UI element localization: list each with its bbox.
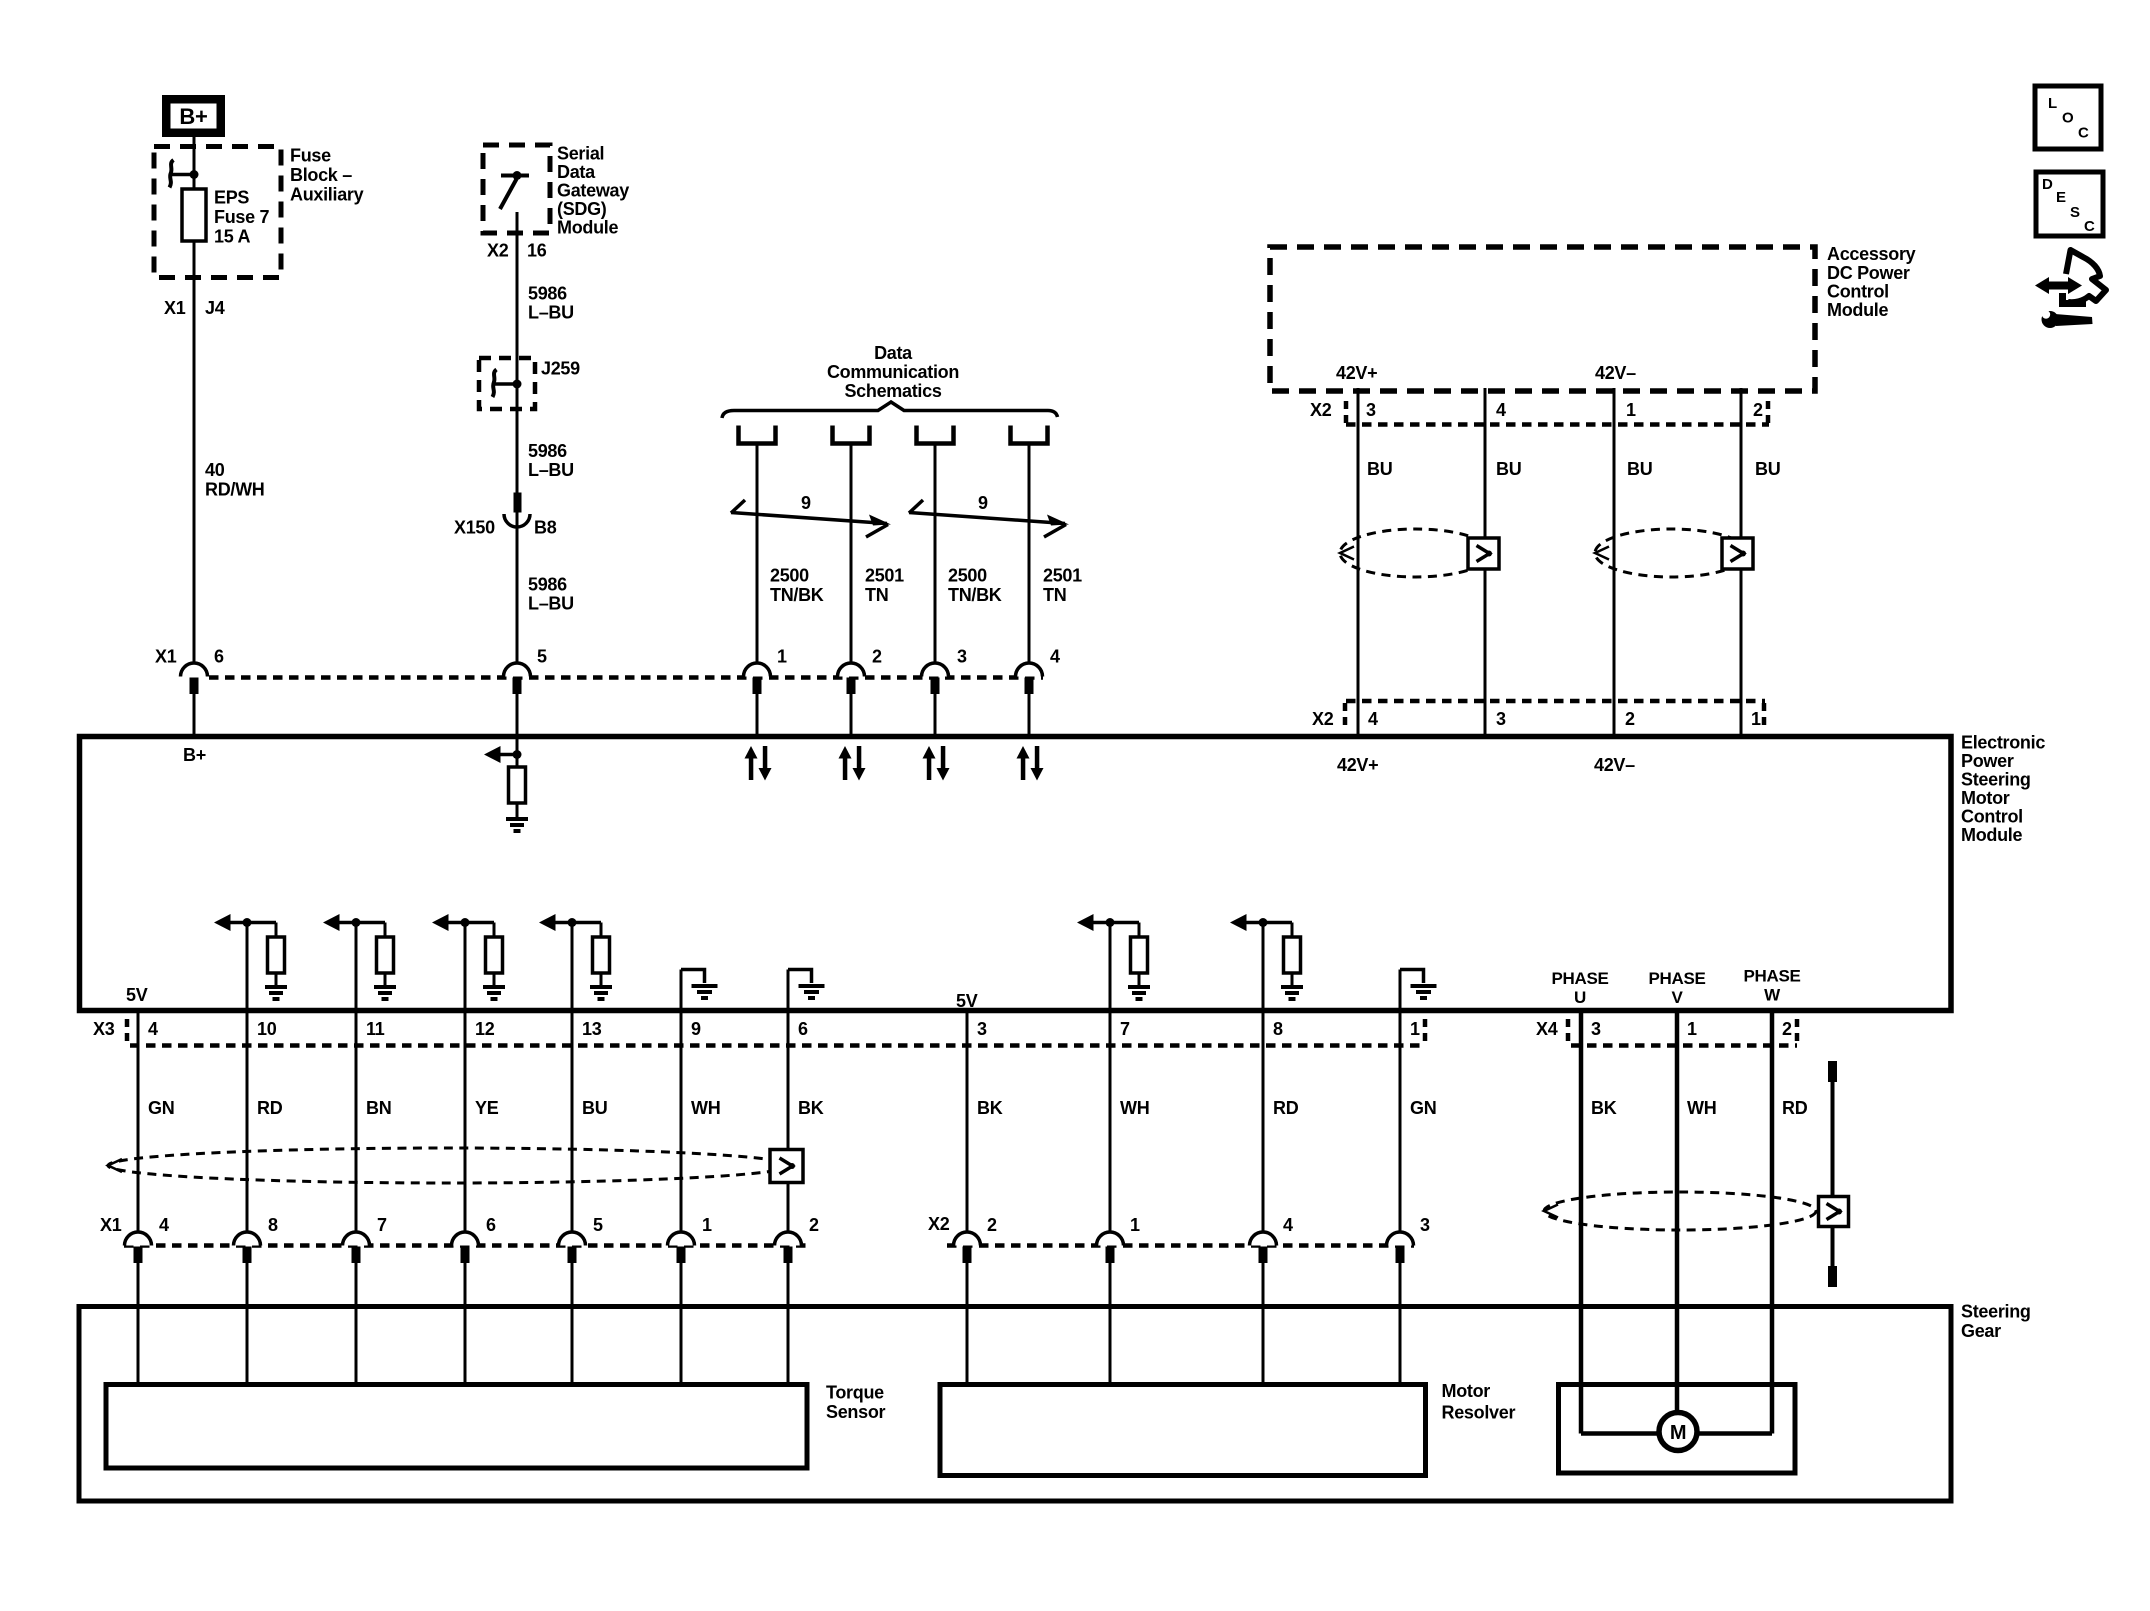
ground internal serial data [506, 817, 528, 821]
wire 2501 TN right [1028, 444, 1031, 664]
splice J259 hook [494, 382, 517, 386]
svg-text:X2: X2 [928, 1214, 950, 1234]
wire into motor resolver pin 4 [1262, 1263, 1265, 1385]
svg-text:Control: Control [1827, 282, 1889, 302]
svg-text:EPS: EPS [214, 188, 249, 208]
connector X1 pin 5 [504, 663, 531, 677]
icon DESC box [2036, 172, 2103, 236]
svg-text:X1: X1 [155, 647, 177, 667]
svg-text:42V–: 42V– [1595, 363, 1636, 383]
svg-text:DC Power: DC Power [1827, 263, 1910, 283]
bidirectional data arrows pin 4 [1021, 758, 1026, 780]
wire 42V+ BU b [1484, 388, 1487, 736]
twisted pair marker 9 left [731, 500, 745, 513]
svg-text:1: 1 [1410, 1019, 1420, 1039]
svg-text:1: 1 [777, 647, 787, 667]
svg-text:7: 7 [1120, 1019, 1130, 1039]
icon data exchange arrow [2048, 282, 2070, 290]
svg-text:BN: BN [366, 1098, 391, 1118]
shield ellipse 42V- pair [1595, 529, 1748, 577]
svg-text:9: 9 [691, 1019, 701, 1039]
bracket X4 right [1795, 1019, 1800, 1041]
svg-text:4: 4 [159, 1215, 169, 1235]
wire pin4 to module [1028, 693, 1031, 736]
svg-text:2: 2 [987, 1215, 997, 1235]
svg-text:42V+: 42V+ [1336, 363, 1377, 383]
svg-text:BK: BK [798, 1098, 824, 1118]
motor resolver box [940, 1385, 1426, 1476]
wire phase V [1675, 1013, 1680, 1413]
bidirectional data arrows pin 2 [843, 758, 848, 780]
svg-text:Schematics: Schematics [844, 381, 941, 401]
accessory DC power control module dashed box [1270, 247, 1815, 391]
svg-text:42V+: 42V+ [1337, 755, 1378, 775]
module ground pigtail pin 6 [787, 970, 790, 1233]
wire into torque sensor pin 8 [246, 1263, 249, 1385]
shield drain torque sensor harness [770, 1150, 803, 1183]
fuse block internal bus hook [171, 173, 194, 177]
wire into torque sensor pin 1 [680, 1263, 683, 1385]
svg-text:5: 5 [593, 1215, 603, 1235]
svg-text:X150: X150 [454, 518, 495, 538]
svg-text:S: S [2070, 204, 2080, 221]
svg-text:42V–: 42V– [1594, 755, 1635, 775]
svg-text:4: 4 [148, 1019, 158, 1039]
wire into motor resolver pin 3 [1399, 1263, 1402, 1385]
svg-text:YE: YE [475, 1098, 499, 1118]
phase shield conductor [1831, 1072, 1835, 1277]
svg-text:BK: BK [1591, 1098, 1617, 1118]
connector X1 pin 2 [838, 663, 865, 677]
module ground pigtail pin 9 [680, 970, 683, 1233]
svg-text:D: D [2042, 176, 2053, 193]
bracket X2 lower right [1762, 703, 1767, 725]
svg-text:2: 2 [1782, 1019, 1792, 1039]
svg-text:Serial: Serial [557, 144, 604, 164]
svg-text:Data: Data [557, 162, 596, 182]
svg-text:2: 2 [872, 647, 882, 667]
bracket X4 left [1566, 1019, 1571, 1041]
wire pin1 to module [756, 693, 759, 736]
svg-text:2500: 2500 [770, 566, 809, 586]
svg-text:PHASE: PHASE [1551, 969, 1608, 988]
svg-text:M: M [1670, 1422, 1686, 1444]
svg-text:Fuse: Fuse [290, 146, 331, 166]
module 5V pullup pin 13 [571, 923, 574, 1233]
wire pin6 to module [193, 693, 196, 736]
svg-text:Module: Module [557, 218, 618, 238]
svg-text:13: 13 [582, 1019, 602, 1039]
svg-text:X1: X1 [164, 298, 186, 318]
icon wrench [2042, 311, 2059, 328]
svg-text:5V: 5V [126, 985, 148, 1005]
connector steering X1 pin 2 [775, 1232, 802, 1246]
connector steering X1 pin 6 [452, 1232, 479, 1246]
bidirectional data arrows pin 1 [749, 758, 754, 780]
connector steering X2 pin 2 [954, 1232, 981, 1246]
svg-text:9: 9 [978, 493, 988, 513]
svg-text:Electronic: Electronic [1961, 733, 2045, 753]
bracket X3 right [1423, 1019, 1428, 1041]
svg-text:WH: WH [1687, 1098, 1716, 1118]
svg-text:PHASE: PHASE [1648, 969, 1705, 988]
wire into torque sensor pin 5 [571, 1263, 574, 1385]
svg-text:BK: BK [977, 1098, 1003, 1118]
svg-text:3: 3 [977, 1019, 987, 1039]
svg-text:1: 1 [1687, 1019, 1697, 1039]
svg-text:5986: 5986 [528, 284, 567, 304]
svg-text:X2: X2 [487, 241, 509, 261]
svg-text:B8: B8 [534, 518, 557, 538]
svg-text:3: 3 [1366, 400, 1376, 420]
svg-text:X1: X1 [100, 1215, 122, 1235]
connector steering X2 pin 3 [1387, 1232, 1414, 1246]
svg-text:5V: 5V [956, 991, 978, 1011]
svg-text:BU: BU [1627, 459, 1652, 479]
svg-text:1: 1 [1751, 709, 1761, 729]
svg-text:15 A: 15 A [214, 227, 250, 247]
svg-text:O: O [2062, 110, 2074, 127]
motor box [1559, 1385, 1796, 1474]
svg-text:RD: RD [257, 1098, 283, 1118]
svg-text:RD: RD [1273, 1098, 1299, 1118]
svg-text:GN: GN [1410, 1098, 1436, 1118]
svg-text:BU: BU [1496, 459, 1521, 479]
svg-text:L–BU: L–BU [528, 460, 574, 480]
shield ellipse torque sensor harness [108, 1148, 790, 1183]
wire into torque sensor pin 7 [355, 1263, 358, 1385]
pass-through connector X150 pin B8 [514, 493, 522, 513]
svg-text:2: 2 [809, 1215, 819, 1235]
svg-text:TN/BK: TN/BK [948, 585, 1002, 605]
wire 42V+ BU a [1357, 388, 1360, 736]
module ground pigtail pin 1 [1399, 970, 1402, 1233]
connector row X1 dashed line [209, 675, 1043, 680]
svg-text:Accessory: Accessory [1827, 244, 1916, 264]
svg-text:3: 3 [1496, 709, 1506, 729]
svg-text:Module: Module [1827, 300, 1888, 320]
svg-text:L–BU: L–BU [528, 594, 574, 614]
connector steering X2 pin 1 [1097, 1232, 1124, 1246]
wire into motor resolver pin 1 [1109, 1263, 1112, 1385]
svg-text:2501: 2501 [1043, 566, 1082, 586]
bidirectional data arrows pin 3 [927, 758, 932, 780]
svg-text:Motor: Motor [1961, 788, 2010, 808]
svg-text:2: 2 [1753, 400, 1763, 420]
wire into torque sensor pin 2 [787, 1263, 790, 1385]
connector X3 dashed line [130, 1043, 1422, 1048]
svg-text:RD: RD [1782, 1098, 1808, 1118]
serial data gateway module dashed box [483, 145, 550, 233]
wire 2500 TN/BK left [756, 444, 759, 664]
connector X4 dashed line [1571, 1043, 1797, 1048]
wire B+ feed 40 RD/WH [193, 137, 196, 663]
svg-text:RD/WH: RD/WH [205, 480, 265, 500]
svg-text:2501: 2501 [865, 566, 904, 586]
connector steering X1 pin 7 [343, 1232, 370, 1246]
wire pin3 to module [934, 693, 937, 736]
svg-text:Control: Control [1961, 807, 2023, 827]
svg-text:Resolver: Resolver [1442, 1403, 1516, 1423]
bus terminal 1 [739, 426, 776, 444]
svg-text:(SDG): (SDG) [557, 199, 607, 219]
svg-text:1: 1 [702, 1215, 712, 1235]
svg-text:9: 9 [801, 493, 811, 513]
svg-text:5986: 5986 [528, 441, 567, 461]
svg-text:Fuse 7: Fuse 7 [214, 207, 270, 227]
svg-text:4: 4 [1050, 647, 1060, 667]
connector steering X1 pin 5 [559, 1232, 586, 1246]
connector X2 upper dashed line [1346, 422, 1769, 427]
connector X1 pin 4 [1016, 663, 1043, 677]
connector row X1 lower dashed line [124, 1243, 806, 1248]
svg-text:Block –: Block – [290, 165, 352, 185]
svg-text:GN: GN [148, 1098, 174, 1118]
svg-text:BU: BU [582, 1098, 607, 1118]
connector steering X2 pin 4 [1250, 1232, 1277, 1246]
battery positive terminal B+ [162, 95, 225, 137]
svg-text:L: L [2048, 95, 2057, 112]
svg-text:V: V [1671, 988, 1683, 1007]
module 5V pullup pin 10 [246, 923, 249, 1233]
steering gear box [79, 1307, 1951, 1502]
svg-text:C: C [2078, 125, 2089, 142]
svg-text:BU: BU [1367, 459, 1392, 479]
svg-text:W: W [1764, 986, 1781, 1005]
svg-text:1: 1 [1130, 1215, 1140, 1235]
svg-text:Steering: Steering [1961, 770, 2031, 790]
wire 2501 TN left [850, 444, 853, 664]
bracket X3 left [125, 1019, 130, 1041]
module 5V reference on serial data line [513, 750, 522, 759]
svg-text:WH: WH [691, 1098, 720, 1118]
svg-text:L–BU: L–BU [528, 303, 574, 323]
svg-text:3: 3 [1591, 1019, 1601, 1039]
svg-text:Data: Data [874, 343, 913, 363]
icon LOC box [2035, 86, 2101, 149]
bus terminal 4 [1011, 426, 1048, 444]
module 5V pullup pin 12 [464, 923, 467, 1233]
fuse block - auxiliary dashed box [154, 147, 281, 278]
shield ellipse 42V+ pair [1340, 529, 1491, 577]
SDG internal switch contact [501, 174, 529, 178]
bracket X2 upper right [1766, 401, 1771, 423]
svg-text:4: 4 [1368, 709, 1378, 729]
electronic power steering motor control module box [80, 737, 1952, 1011]
connector steering X1 pin 4 [125, 1232, 152, 1246]
svg-text:B+: B+ [183, 745, 206, 765]
wire phase W [1770, 1013, 1775, 1434]
connector row X2 lower dashed line [947, 1243, 1414, 1248]
svg-text:3: 3 [1420, 1215, 1430, 1235]
bus terminal 3 [917, 426, 954, 444]
svg-text:WH: WH [1120, 1098, 1149, 1118]
svg-text:Sensor: Sensor [826, 1402, 886, 1422]
svg-text:6: 6 [798, 1019, 808, 1039]
svg-text:Steering: Steering [1961, 1302, 2031, 1322]
svg-text:5986: 5986 [528, 575, 567, 595]
svg-text:U: U [1574, 988, 1586, 1007]
svg-text:X2: X2 [1312, 709, 1334, 729]
wire motor phase U link [1581, 1431, 1659, 1436]
bracket X2 lower left [1343, 703, 1348, 725]
svg-text:4: 4 [1496, 400, 1506, 420]
wire into torque sensor pin 6 [464, 1263, 467, 1385]
wire phase U [1579, 1013, 1584, 1434]
icon power flow outline [2066, 250, 2106, 302]
svg-text:7: 7 [377, 1215, 387, 1235]
connector X1 pin 6 [181, 663, 208, 677]
svg-text:6: 6 [486, 1215, 496, 1235]
svg-text:8: 8 [1273, 1019, 1283, 1039]
connector X1 pin 3 [922, 663, 949, 677]
wire sensor BK pin3 [966, 1013, 969, 1232]
svg-text:X2: X2 [1310, 400, 1332, 420]
shield ellipse phase wires [1544, 1192, 1816, 1230]
wire pin5 to module [516, 693, 519, 739]
wire into motor resolver pin 2 [966, 1263, 969, 1385]
connector X1 pin 1 [744, 663, 771, 677]
motor M [1659, 1413, 1697, 1451]
svg-text:10: 10 [257, 1019, 277, 1039]
shield drain 42V- pair [1722, 538, 1753, 569]
svg-text:BU: BU [1755, 459, 1780, 479]
brace data communication [722, 402, 1058, 418]
svg-text:8: 8 [268, 1215, 278, 1235]
svg-text:J259: J259 [541, 359, 580, 379]
connector steering X1 pin 8 [234, 1232, 261, 1246]
svg-text:Torque: Torque [826, 1383, 884, 1403]
svg-text:B+: B+ [179, 104, 207, 129]
svg-text:16: 16 [527, 241, 547, 261]
svg-text:J4: J4 [205, 298, 225, 318]
splice J259 dashed box [479, 358, 535, 409]
svg-text:4: 4 [1283, 1215, 1293, 1235]
svg-text:3: 3 [957, 647, 967, 667]
wire 42V- BU a [1613, 388, 1616, 736]
svg-text:Motor: Motor [1442, 1381, 1491, 1401]
svg-text:Gear: Gear [1961, 1321, 2001, 1341]
wire pin2 to module [850, 693, 853, 736]
twisted pair marker 9 right [909, 500, 923, 513]
svg-text:E: E [2056, 189, 2066, 206]
shield drain phase wires [1819, 1197, 1849, 1227]
bus terminal 2 [833, 426, 870, 444]
connector steering X1 pin 1 [668, 1232, 695, 1246]
module 5V pullup pin 7 [1109, 923, 1112, 1233]
svg-text:1: 1 [1626, 400, 1636, 420]
module 5V pullup pin 8 [1262, 923, 1265, 1233]
svg-text:Module: Module [1961, 825, 2022, 845]
svg-text:12: 12 [475, 1019, 495, 1039]
svg-text:Gateway: Gateway [557, 181, 629, 201]
svg-text:Power: Power [1961, 751, 2014, 771]
wire 42V- BU b [1740, 388, 1743, 736]
bracket X2 upper left [1344, 401, 1349, 423]
svg-text:X4: X4 [1536, 1019, 1558, 1039]
svg-text:TN: TN [1043, 585, 1066, 605]
svg-text:Communication: Communication [827, 362, 959, 382]
wire 2500 TN/BK right [934, 444, 937, 664]
svg-text:PHASE: PHASE [1743, 967, 1800, 986]
svg-text:X3: X3 [93, 1019, 115, 1039]
svg-text:2: 2 [1625, 709, 1635, 729]
svg-text:C: C [2084, 218, 2095, 235]
svg-text:TN: TN [865, 585, 888, 605]
wire 5986 L-BU serial data [516, 212, 519, 663]
wire motor phase W link [1697, 1431, 1772, 1436]
module 5V pullup pin 11 [355, 923, 358, 1233]
wire torque sensor 5V supply GN [137, 1013, 140, 1232]
svg-text:5: 5 [537, 647, 547, 667]
fuse EPS Fuse 7 15A [182, 189, 206, 241]
svg-text:11: 11 [366, 1019, 385, 1039]
connector X2 lower dashed line [1346, 699, 1765, 704]
svg-text:TN/BK: TN/BK [770, 585, 824, 605]
svg-text:40: 40 [205, 460, 225, 480]
svg-text:2500: 2500 [948, 566, 987, 586]
torque sensor box [106, 1385, 807, 1469]
svg-text:Auxiliary: Auxiliary [290, 185, 364, 205]
wire into torque sensor pin 4 [137, 1263, 140, 1385]
svg-text:6: 6 [214, 647, 224, 667]
shield drain 42V+ pair [1468, 538, 1499, 569]
